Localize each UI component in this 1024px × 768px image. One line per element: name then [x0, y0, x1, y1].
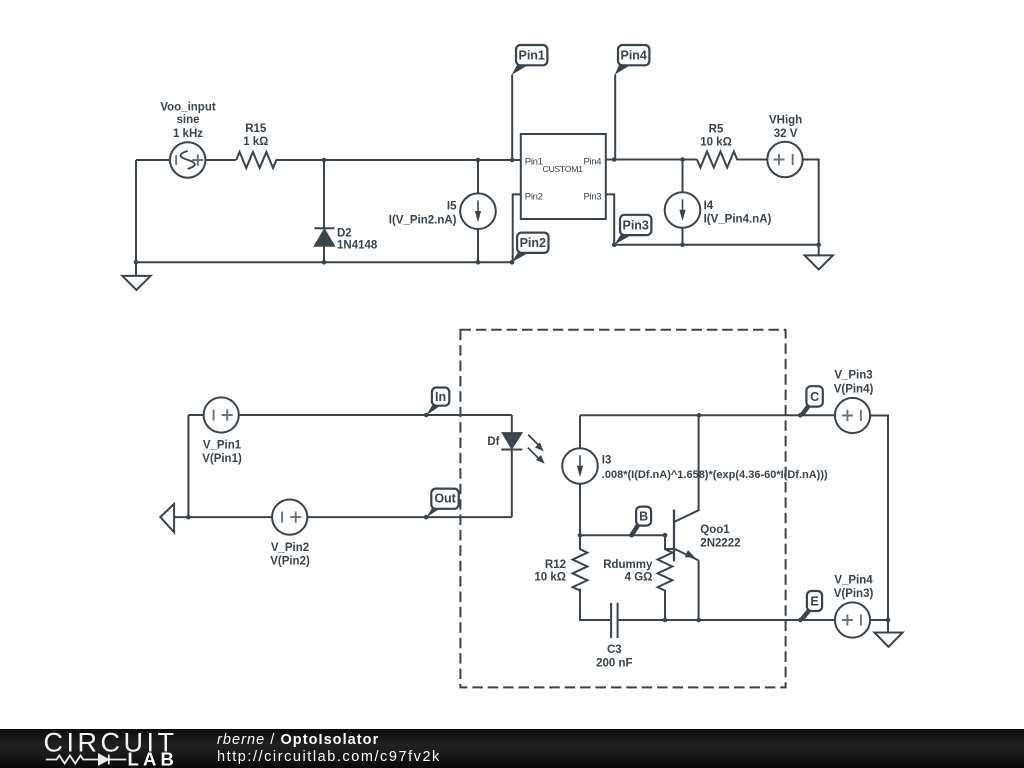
svg-text:V_Pin2: V_Pin2 [271, 542, 309, 554]
svg-text:1N4148: 1N4148 [337, 239, 378, 251]
svg-text:I5: I5 [447, 200, 457, 212]
svg-text:LAB: LAB [128, 749, 179, 768]
svg-text:I(V_Pin2.nA): I(V_Pin2.nA) [389, 215, 457, 227]
svg-text:1 kHz: 1 kHz [173, 128, 203, 140]
svg-text:Pin1: Pin1 [525, 156, 543, 167]
svg-text:1 kΩ: 1 kΩ [243, 136, 268, 148]
svg-text:Pin1: Pin1 [518, 49, 544, 63]
svg-text:V_Pin3: V_Pin3 [834, 370, 872, 382]
svg-text:Pin4: Pin4 [583, 156, 601, 167]
svg-text:10 kΩ: 10 kΩ [534, 572, 566, 584]
svg-text:Rdummy: Rdummy [603, 559, 653, 571]
svg-text:E: E [810, 595, 818, 609]
svg-text:Voo_input: Voo_input [160, 102, 216, 114]
svg-text:10 kΩ: 10 kΩ [700, 136, 732, 148]
svg-text:C3: C3 [607, 644, 622, 656]
svg-text:V(Pin3): V(Pin3) [834, 588, 874, 600]
svg-text:VHigh: VHigh [769, 115, 802, 127]
svg-text:R15: R15 [245, 123, 267, 135]
svg-text:.008*(I(Df.nA)^1.658)*(exp(4.3: .008*(I(Df.nA)^1.658)*(exp(4.36-60*I(Df.… [602, 469, 828, 481]
svg-text:R5: R5 [709, 123, 724, 135]
svg-text:I(V_Pin4.nA): I(V_Pin4.nA) [704, 214, 772, 226]
svg-text:I4: I4 [704, 200, 714, 212]
svg-text:D2: D2 [337, 227, 352, 239]
svg-text:32 V: 32 V [774, 128, 798, 140]
svg-text:V(Pin2): V(Pin2) [270, 556, 310, 568]
svg-text:CUSTOM1: CUSTOM1 [542, 164, 583, 174]
svg-text:V(Pin1): V(Pin1) [202, 453, 242, 465]
svg-text:I3: I3 [602, 454, 612, 466]
svg-text:B: B [639, 510, 648, 524]
svg-text:Qoo1: Qoo1 [700, 524, 730, 536]
svg-text:C: C [810, 390, 819, 404]
svg-text:Pin3: Pin3 [622, 218, 648, 232]
svg-text:V(Pin4): V(Pin4) [834, 383, 874, 395]
svg-text:R12: R12 [545, 559, 566, 571]
svg-text:4 GΩ: 4 GΩ [625, 572, 653, 584]
svg-text:Out: Out [434, 492, 456, 506]
svg-text:V_Pin4: V_Pin4 [834, 575, 873, 587]
svg-text:Pin3: Pin3 [583, 191, 601, 202]
svg-text:Pin2: Pin2 [520, 236, 546, 250]
svg-text:2N2222: 2N2222 [700, 537, 740, 549]
svg-text:Pin4: Pin4 [620, 49, 646, 63]
svg-text:Pin2: Pin2 [525, 191, 543, 202]
svg-text:V_Pin1: V_Pin1 [203, 439, 242, 451]
svg-text:200 nF: 200 nF [596, 658, 632, 670]
svg-text:sine: sine [176, 114, 199, 126]
svg-text:In: In [435, 390, 446, 404]
svg-text:Df: Df [487, 436, 499, 448]
